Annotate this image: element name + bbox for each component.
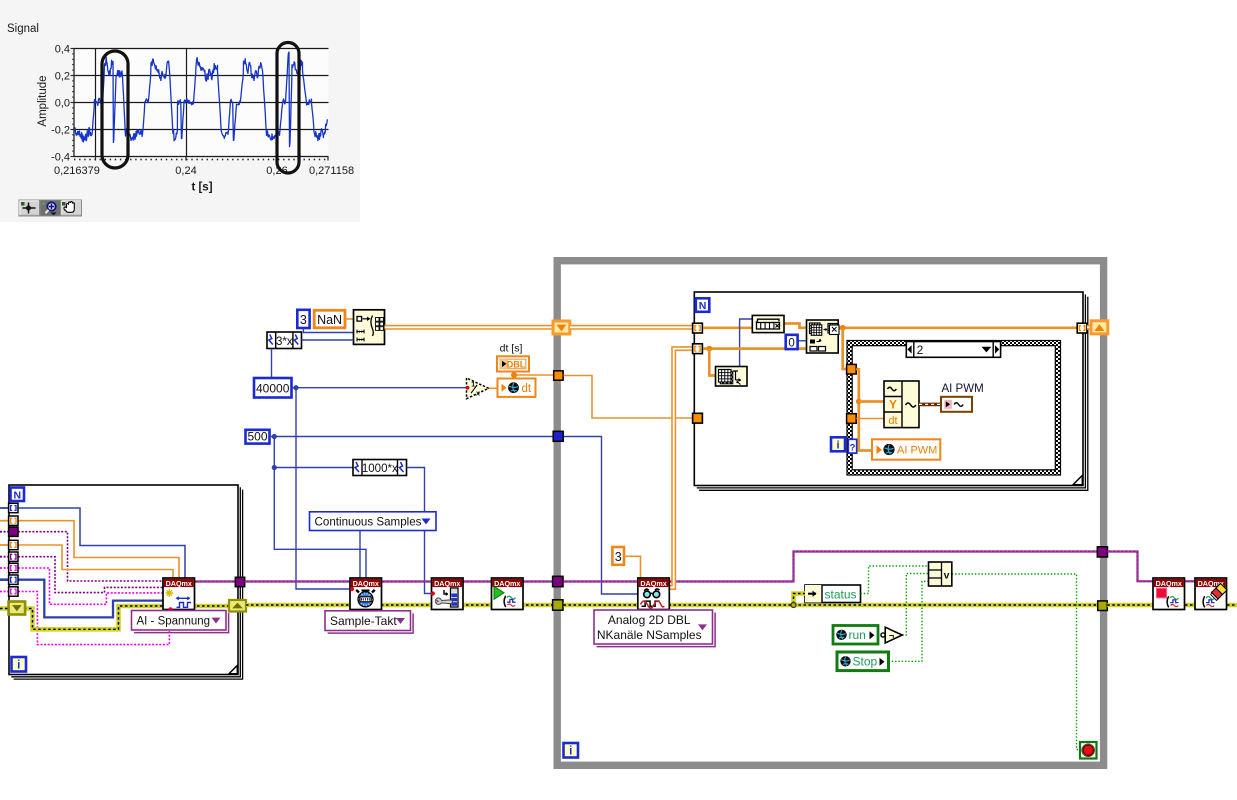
svg-text:N: N	[699, 300, 707, 312]
svg-text:3*x: 3*x	[276, 336, 293, 348]
svg-text:Y: Y	[889, 400, 897, 412]
svg-text:0,216379: 0,216379	[54, 165, 100, 177]
svg-text:0,271158: 0,271158	[309, 165, 354, 177]
svg-text:status: status	[824, 587, 856, 601]
svg-text:DAQmx: DAQmx	[640, 579, 666, 588]
svg-text:t [s]: t [s]	[191, 182, 212, 194]
svg-text:DAQmx: DAQmx	[1156, 579, 1182, 588]
svg-text:DBL: DBL	[507, 359, 526, 369]
svg-text:1000*x: 1000*x	[362, 463, 398, 475]
svg-text:AI PWM: AI PWM	[897, 445, 937, 457]
svg-text:?: ?	[850, 443, 856, 454]
svg-text:DAQmx: DAQmx	[353, 579, 379, 588]
svg-text:3: 3	[300, 313, 307, 327]
svg-text:Stop: Stop	[853, 654, 878, 668]
svg-text:DAQmx: DAQmx	[434, 579, 460, 588]
svg-text:1: 1	[471, 379, 475, 388]
svg-text:0,24: 0,24	[175, 165, 196, 177]
svg-text:AI PWM: AI PWM	[942, 383, 984, 395]
svg-text:AI - Spannung: AI - Spannung	[137, 615, 211, 627]
svg-text:500: 500	[247, 430, 267, 444]
svg-text:run: run	[849, 628, 866, 642]
svg-text:¬: ¬	[889, 631, 894, 641]
svg-text:NaN: NaN	[317, 313, 342, 327]
svg-text:Amplitude: Amplitude	[37, 75, 49, 126]
svg-text:dt: dt	[522, 383, 532, 395]
svg-text:0: 0	[788, 337, 794, 349]
svg-text:Sample-Takt: Sample-Takt	[330, 614, 397, 628]
svg-text:0,0: 0,0	[55, 98, 70, 110]
svg-text:40000: 40000	[256, 382, 290, 396]
svg-text:DAQmx: DAQmx	[494, 579, 520, 588]
svg-text:NKanäle NSamples: NKanäle NSamples	[597, 628, 702, 642]
svg-text:0,4: 0,4	[55, 44, 70, 56]
svg-text:Analog 2D DBL: Analog 2D DBL	[608, 613, 691, 627]
svg-text:N: N	[13, 489, 21, 501]
svg-text:DAQmx: DAQmx	[166, 579, 192, 588]
svg-text:Signal: Signal	[7, 23, 39, 35]
svg-text:i: i	[17, 660, 20, 672]
svg-text:2: 2	[917, 343, 924, 357]
svg-text:i: i	[569, 746, 572, 758]
svg-text:dt: dt	[888, 415, 897, 427]
svg-text:3: 3	[615, 550, 622, 564]
svg-text:v: v	[944, 569, 950, 581]
svg-text:0,2: 0,2	[55, 71, 70, 83]
svg-text:i: i	[836, 439, 839, 451]
svg-text:dt [s]: dt [s]	[500, 343, 523, 355]
svg-text:Continuous Samples: Continuous Samples	[315, 515, 422, 528]
svg-text:-0,4: -0,4	[51, 152, 70, 164]
svg-text:-0,2: -0,2	[51, 125, 70, 137]
